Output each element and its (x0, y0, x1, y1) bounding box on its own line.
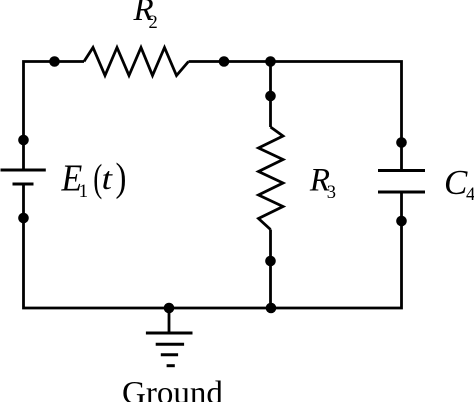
svg-text:C: C (444, 163, 468, 202)
svg-text:t: t (102, 161, 114, 196)
svg-text:): ) (116, 154, 127, 199)
svg-text:3: 3 (327, 183, 336, 203)
svg-text:2: 2 (149, 13, 158, 33)
svg-text:Ground: Ground (122, 376, 223, 402)
svg-text:4: 4 (466, 185, 474, 205)
svg-text:1: 1 (79, 181, 89, 202)
